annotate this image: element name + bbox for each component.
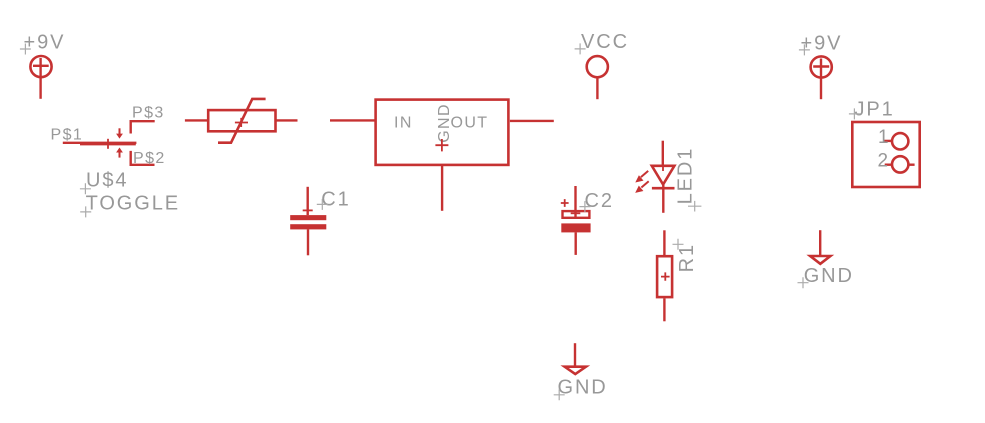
ground GND right: label xyxy=(804,265,854,287)
wire from VCC pin down xyxy=(596,77,598,100)
LED1: top pin wire xyxy=(662,141,664,166)
LED1: pin cross tick xyxy=(662,167,664,172)
LED1: cathode bar xyxy=(652,187,675,190)
supply +9V left: origin cross xyxy=(20,44,31,55)
switch U$4: upper contact arrow xyxy=(116,128,123,138)
switch U$4: pin P$1 wire xyxy=(63,142,137,144)
svg-text:1: 1 xyxy=(878,127,889,148)
switch U$4: name origin cross xyxy=(80,183,91,194)
switch U$4: pin P$3 wire xyxy=(131,121,155,133)
LED1: name label (rotated) xyxy=(675,147,697,205)
svg-text:+9V: +9V xyxy=(24,31,66,53)
supply +9V left: circle symbol xyxy=(30,56,51,77)
svg-text:JP1: JP1 xyxy=(855,99,895,121)
capacitor C1: top plate xyxy=(290,215,326,220)
connector JP1: pin 2 wire right xyxy=(908,163,914,165)
connector JP1: origin cross xyxy=(849,108,860,119)
ground GND right: origin cross xyxy=(798,277,809,288)
capacitor C2: polarity plus xyxy=(561,199,569,207)
svg-text:2: 2 xyxy=(878,150,889,171)
switch U$4: lower contact arrow xyxy=(116,148,123,158)
svg-text:U$4: U$4 xyxy=(86,170,128,192)
connector JP1: name label xyxy=(855,99,895,121)
resistor R1: name label (rotated) xyxy=(676,243,698,272)
regulator U1: pin name OUT xyxy=(451,114,489,131)
regulator U1: origin cross xyxy=(435,139,448,151)
fuse: right pin wire xyxy=(276,119,298,121)
connector JP1: pin 1 wire xyxy=(883,140,892,142)
svg-text:P$1: P$1 xyxy=(51,127,84,144)
supply +9V right: plus sign xyxy=(813,65,829,67)
connector JP1: body box xyxy=(852,122,919,187)
regulator U1: IN pin wire xyxy=(330,119,375,121)
supply +9V right: label xyxy=(801,32,843,54)
supply VCC: origin cross xyxy=(575,43,586,54)
switch U$4: pin P$1 connection cross xyxy=(107,139,109,149)
regulator U1: pin name GND (rotated) xyxy=(436,103,453,143)
svg-text:C1: C1 xyxy=(321,189,350,211)
capacitor C1: pin cross xyxy=(303,209,313,211)
svg-text:+9V: +9V xyxy=(801,32,843,54)
LED1: bottom pin wire xyxy=(662,185,664,213)
LED1: triangle xyxy=(652,166,675,185)
ground GND right: wire xyxy=(819,230,821,255)
svg-text:LED1: LED1 xyxy=(675,147,697,205)
switch U$4: pin P$2 wire xyxy=(131,151,155,165)
supply +9V right: circle symbol xyxy=(811,56,832,77)
svg-text:VCC: VCC xyxy=(581,31,629,53)
svg-text:P$3: P$3 xyxy=(132,105,165,122)
switch U$4: pin P$1 label xyxy=(51,127,84,144)
svg-text:GND: GND xyxy=(558,377,608,399)
svg-text:R1: R1 xyxy=(676,243,698,272)
svg-text:OUT: OUT xyxy=(451,114,489,131)
svg-text:C2: C2 xyxy=(585,190,614,212)
supply +9V left: label xyxy=(24,31,66,53)
ground GND middle: wire xyxy=(574,343,576,366)
capacitor C2: top pin wire xyxy=(574,186,576,217)
LED1: origin cross xyxy=(688,201,701,212)
capacitor C1: origin cross xyxy=(317,199,328,210)
regulator U1: GND pin wire xyxy=(441,166,443,211)
resistor R1: body box xyxy=(657,256,672,297)
resistor R1: bottom pin wire xyxy=(663,298,665,321)
switch U$4: pin P$2 label xyxy=(133,150,166,167)
ground GND middle: label xyxy=(558,377,608,399)
switch U$4: value label TOGGLE xyxy=(86,193,180,215)
regulator U1: body box xyxy=(376,100,509,165)
connector JP1: pin 1 number xyxy=(878,127,889,148)
capacitor C1: bottom plate xyxy=(290,224,326,229)
connector JP1: pin 1 circle xyxy=(892,133,908,149)
supply VCC: label xyxy=(581,31,629,53)
ground GND middle: origin cross xyxy=(554,389,565,400)
regulator U1: OUT pin wire xyxy=(510,120,554,122)
capacitor C1: top pin wire xyxy=(307,187,309,215)
capacitor C1: bottom pin wire xyxy=(307,229,309,255)
supply +9V right: origin cross xyxy=(799,44,810,55)
LED1: light arrow lower xyxy=(635,181,649,193)
resistor R1: origin cross xyxy=(661,272,670,280)
resistor R1: top pin wire xyxy=(663,230,665,255)
resistor R1: name origin cross xyxy=(673,239,684,250)
LED1: light arrow upper xyxy=(635,171,648,183)
capacitor C2: name label xyxy=(585,190,614,212)
ground GND middle: triangle xyxy=(565,367,586,374)
svg-text:IN: IN xyxy=(394,114,413,131)
capacitor C1: name label xyxy=(321,189,350,211)
fuse: body rectangle xyxy=(208,110,275,131)
switch U$4: value origin cross xyxy=(80,206,91,217)
regulator U1: pin name IN xyxy=(394,114,413,131)
fuse: origin cross xyxy=(235,118,248,127)
switch U$4: name label xyxy=(86,170,128,192)
capacitor C2: bottom pin wire xyxy=(575,232,577,255)
svg-text:TOGGLE: TOGGLE xyxy=(86,193,180,215)
connector JP1: pin 2 circle xyxy=(892,156,908,172)
wire from +9V left pin down xyxy=(39,58,41,99)
fuse: diagonal strike xyxy=(218,99,266,143)
svg-text:GND: GND xyxy=(804,265,854,287)
connector JP1: pin 2 number xyxy=(878,150,889,171)
switch U$4: pin P$3 label xyxy=(132,105,165,122)
connector JP1: pin 2 wire left xyxy=(885,163,892,165)
ground GND right: triangle xyxy=(810,256,830,264)
fuse: left pin wire xyxy=(185,119,208,121)
switch U$4: lever wire xyxy=(80,143,136,145)
wire from +9V right pin down xyxy=(820,59,822,100)
capacitor C2: origin cross xyxy=(579,201,590,212)
capacitor C2: top plate outline xyxy=(563,211,590,218)
supply +9V left: plus sign xyxy=(33,65,49,67)
capacitor C2: pin cross xyxy=(571,212,581,214)
svg-text:P$2: P$2 xyxy=(133,150,166,167)
capacitor C2: bottom plate xyxy=(561,223,590,232)
supply VCC: circle symbol xyxy=(587,56,608,77)
